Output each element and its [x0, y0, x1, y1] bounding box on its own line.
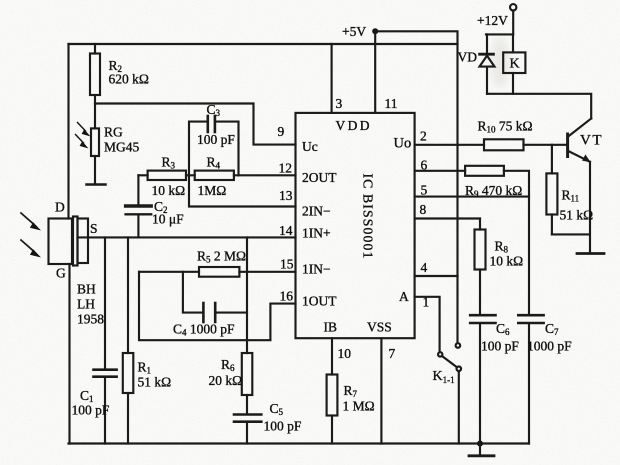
svg-text:VT: VT	[580, 133, 603, 149]
capacitor C2	[126, 175, 152, 237]
svg-text:4: 4	[421, 260, 428, 275]
wire pin 3	[331, 44, 333, 113]
resistor R11	[546, 145, 589, 235]
label IB pin name	[324, 320, 338, 335]
svg-text:51 kΩ: 51 kΩ	[560, 208, 594, 223]
svg-text:2OUT: 2OUT	[302, 170, 337, 185]
wire bottom ground rail	[69, 442, 530, 444]
wire R5 loop to pin 16 (1OUT)	[139, 272, 296, 340]
svg-text:R5 2 MΩ: R5 2 MΩ	[197, 249, 246, 265]
svg-text:13: 13	[279, 188, 293, 203]
capacitor C5	[234, 415, 261, 444]
resistor R3	[138, 171, 186, 180]
label C2 value	[152, 199, 184, 227]
resistor R8	[475, 219, 486, 315]
svg-text:1000 pF: 1000 pF	[527, 339, 572, 354]
svg-text:1OUT: 1OUT	[302, 294, 337, 309]
node +5V terminal dot	[372, 28, 378, 34]
svg-text:2: 2	[420, 129, 427, 144]
resistor R6	[242, 353, 253, 413]
resistor R5 on pin 15 wire	[139, 267, 296, 277]
wire pin 2 (Uo) to R10	[415, 144, 484, 146]
photoresistor RG	[91, 104, 99, 184]
svg-text:1958: 1958	[77, 312, 104, 327]
ground RG terminal bar	[87, 183, 106, 186]
label 1IN- pin name	[302, 262, 331, 277]
wire pin14 net down to R6	[246, 237, 248, 353]
svg-text:+5V: +5V	[342, 24, 366, 39]
label R7 value	[343, 383, 375, 414]
label C3 value	[197, 102, 235, 147]
svg-text:VDD: VDD	[336, 118, 372, 133]
wire left rail (G side)	[68, 264, 70, 444]
svg-text:10: 10	[338, 346, 352, 361]
node junction dot C6/ground	[477, 441, 483, 447]
svg-text:51 kΩ: 51 kΩ	[138, 375, 172, 390]
label K1-1 switch	[433, 369, 455, 385]
wire +5V drop to switch contact	[456, 276, 458, 343]
label R10 value	[478, 119, 533, 135]
label 1IN+ pin name	[302, 226, 331, 241]
label R5 value	[197, 249, 246, 265]
svg-text:Uo: Uo	[394, 136, 412, 152]
terminal +12V	[510, 4, 516, 34]
wire left rail (D side)	[67, 44, 69, 219]
svg-text:A: A	[399, 289, 409, 304]
pin number 2	[420, 129, 427, 144]
svg-text:G: G	[56, 266, 66, 281]
label 1OUT pin name	[302, 294, 337, 309]
capacitor C3 (parallel R4)	[189, 116, 239, 175]
capacitor C6	[470, 315, 495, 443]
svg-text:Uc: Uc	[302, 139, 318, 154]
svg-text:14: 14	[279, 223, 293, 238]
pin number 6	[421, 158, 428, 173]
pin number 14	[279, 223, 293, 238]
label C6 value	[481, 321, 519, 354]
label A pin name	[399, 289, 409, 304]
label R1 value	[138, 360, 172, 390]
sensor BH LH 1958 body	[49, 217, 89, 266]
resistor R2	[90, 44, 100, 104]
svg-text:11: 11	[385, 96, 398, 111]
pin number 15	[280, 257, 294, 272]
label Uc pin name	[302, 139, 318, 154]
label VSS pin name	[367, 320, 392, 335]
svg-text:MG45: MG45	[104, 140, 140, 155]
label R11 value	[560, 188, 594, 223]
svg-text:RG: RG	[104, 125, 123, 140]
svg-text:IC BISS0001: IC BISS0001	[361, 173, 376, 259]
label C7 value	[527, 321, 572, 354]
svg-text:16: 16	[280, 289, 294, 304]
svg-text:10 kΩ: 10 kΩ	[152, 183, 186, 198]
label Uo pin name	[394, 136, 412, 152]
svg-text:7: 7	[389, 346, 396, 361]
svg-text:6: 6	[421, 158, 428, 173]
pin number 1	[423, 295, 430, 310]
pin number 12	[279, 161, 293, 176]
label K (relay)	[510, 57, 520, 72]
label VDD pin name	[336, 118, 372, 133]
svg-text:R10 75 kΩ: R10 75 kΩ	[478, 119, 533, 135]
label VD	[458, 50, 478, 65]
label R4 value	[198, 155, 227, 199]
label sensor type BH LH 1958	[77, 282, 104, 327]
label 2OUT pin name	[302, 170, 337, 185]
pin number 3	[336, 96, 343, 111]
wire R4 to pin 12 (2OUT)	[234, 174, 296, 176]
pin number 13	[279, 188, 293, 203]
wire top +5V rail	[69, 43, 458, 45]
pin number 8	[420, 202, 427, 217]
svg-text:1IN+: 1IN+	[302, 226, 331, 241]
wire R10 to VT base	[524, 144, 567, 146]
light arrows to sensor	[21, 213, 41, 258]
label sensor pins D S G	[55, 200, 98, 281]
pin number 11	[385, 96, 398, 111]
svg-text:+12V: +12V	[477, 13, 508, 28]
svg-text:2IN−: 2IN−	[302, 204, 331, 219]
svg-text:R9 470 kΩ: R9 470 kΩ	[465, 183, 522, 199]
svg-text:1MΩ: 1MΩ	[198, 183, 227, 198]
svg-text:K: K	[510, 57, 520, 72]
wire pin 6 to R9	[415, 170, 466, 172]
wire pin 4	[415, 275, 458, 277]
svg-text:100 pF: 100 pF	[264, 419, 302, 434]
wire R3-R4 junction	[186, 174, 195, 176]
switch K1-1	[438, 343, 461, 443]
wire pin 8 to R8	[415, 217, 480, 219]
wire R9 right to C7 line	[504, 171, 529, 314]
svg-text:20 kΩ: 20 kΩ	[209, 373, 243, 388]
pin number 9	[278, 124, 285, 139]
resistor R10	[484, 139, 524, 150]
wire relay bottom to VT collector	[487, 94, 591, 119]
diode VD	[480, 34, 495, 93]
label C1 value	[72, 388, 110, 418]
svg-text:BH: BH	[77, 282, 96, 297]
svg-text:1: 1	[423, 295, 430, 310]
svg-text:10 kΩ: 10 kΩ	[490, 254, 524, 269]
svg-text:8: 8	[420, 202, 427, 217]
svg-text:LH: LH	[77, 297, 95, 312]
wire pin 1 (A) to switch	[415, 297, 440, 352]
svg-text:S: S	[90, 221, 98, 236]
pin number 10	[338, 346, 352, 361]
wire relay top bar	[486, 33, 513, 35]
svg-text:9: 9	[278, 124, 285, 139]
label RG value	[104, 125, 140, 155]
capacitor C4 (parallel R5)	[183, 272, 247, 322]
label C5 value	[264, 401, 302, 434]
wire pin 11	[374, 31, 376, 113]
resistor R7	[327, 375, 338, 444]
transistor VT	[568, 119, 592, 253]
svg-text:5: 5	[421, 183, 428, 198]
resistor R9	[465, 166, 504, 176]
label +5V	[342, 24, 366, 39]
label VT	[580, 133, 603, 149]
label R2 value	[109, 58, 149, 87]
capacitor C1	[94, 237, 117, 443]
resistor R4	[195, 171, 234, 180]
label R3 value	[152, 155, 186, 199]
label R9 value	[465, 183, 522, 199]
svg-text:VD: VD	[458, 50, 478, 65]
label 2IN- pin name	[302, 204, 331, 219]
svg-text:15: 15	[280, 257, 294, 272]
label R6 value	[209, 357, 243, 388]
svg-text:100 pF: 100 pF	[72, 403, 110, 418]
ground symbol below rail	[469, 444, 494, 456]
wire pin 7 (VSS) to ground rail	[380, 338, 382, 443]
label R8 value	[490, 239, 524, 269]
svg-text:620 kΩ: 620 kΩ	[109, 72, 149, 87]
wire pin 10 to R7	[331, 338, 333, 374]
svg-text:100 pF: 100 pF	[481, 339, 519, 354]
pin number 5	[421, 183, 428, 198]
relay coil K	[503, 34, 525, 93]
pin number 16	[280, 289, 294, 304]
wire S output to pin 14 (1IN+)	[78, 236, 296, 238]
svg-text:IB: IB	[324, 320, 338, 335]
label C4 value	[173, 322, 235, 338]
capacitor C7	[518, 315, 543, 443]
svg-text:D: D	[55, 200, 65, 215]
svg-text:100 pF: 100 pF	[197, 132, 235, 147]
pin number 7	[389, 346, 396, 361]
wire pin 5 (2IN-)	[415, 196, 529, 198]
wire junction to pin 13 (2IN-)	[189, 175, 296, 206]
svg-text:1 MΩ: 1 MΩ	[343, 399, 375, 414]
wire R2 to pin 9 (Uc)	[95, 104, 296, 145]
svg-text:1IN−: 1IN−	[302, 262, 331, 277]
label IC BISS0001	[361, 173, 376, 259]
wire +5V feed	[375, 31, 457, 276]
label +12V	[477, 13, 508, 28]
svg-text:12: 12	[279, 161, 293, 176]
pin number 4	[421, 260, 428, 275]
svg-text:VSS: VSS	[367, 320, 392, 335]
ground VT emitter	[577, 252, 604, 255]
resistor R1	[123, 237, 134, 443]
light arrows to RG	[76, 123, 91, 149]
op-amp IC U1 BISS0001 box	[296, 113, 415, 338]
svg-text:10 μF: 10 μF	[152, 212, 184, 227]
svg-text:3: 3	[336, 96, 343, 111]
